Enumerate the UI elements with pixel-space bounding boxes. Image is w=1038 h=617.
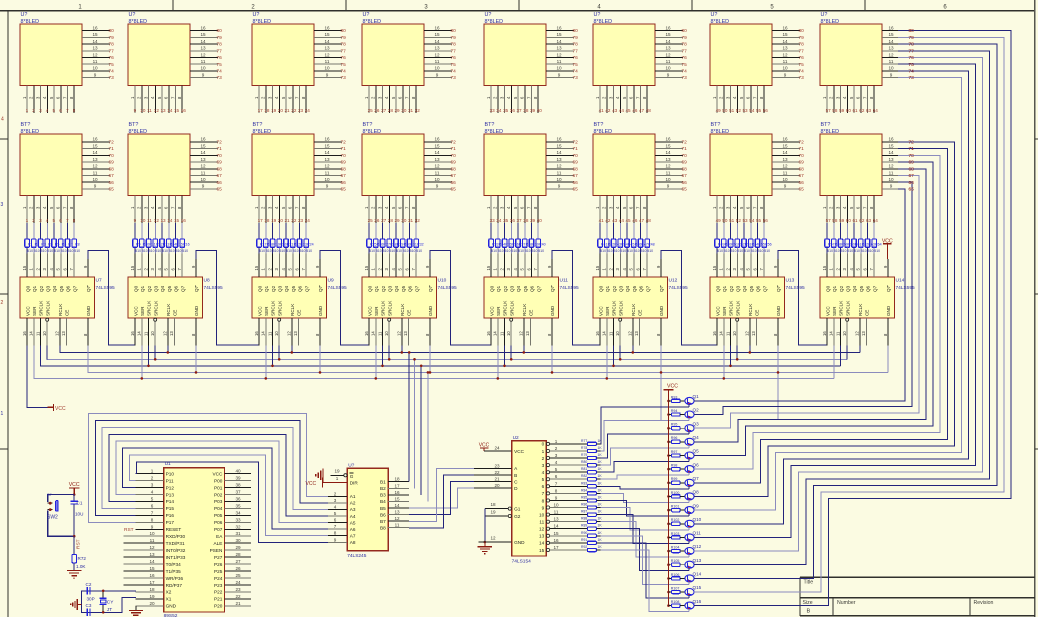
wire net 76 (row drive) module col8 to Q12 collector [694, 58, 983, 552]
svg-text:13: 13 [434, 46, 440, 51]
bottom pin 8 of module row1 col6, net 48 [642, 86, 651, 114]
svg-text:510: 510 [142, 249, 148, 253]
svg-text:R88: R88 [581, 517, 587, 521]
pin 14 of module row2 col1, net 70 [82, 150, 114, 159]
svg-text:SER: SER [496, 306, 501, 316]
svg-text:4: 4 [506, 206, 511, 209]
svg-text:510: 510 [286, 249, 292, 253]
wire U2 output 3 to Q4 base [601, 448, 689, 465]
pin 10 of module row2 col8, net 66 [882, 177, 914, 186]
svg-text:35: 35 [503, 218, 509, 223]
pin 9 of module row2 col5, net 65 [546, 184, 578, 193]
junction node VCC rail row 11 [667, 536, 670, 539]
junction node VCC rail row 10 [667, 523, 670, 526]
svg-text:59: 59 [839, 218, 845, 223]
resistor R41 (column driver col 6) [598, 223, 608, 253]
bottom pin 3 of module row1 col6, net 43 [608, 86, 617, 114]
svg-text:10: 10 [665, 66, 671, 71]
wire U8 pin drop to bus at y=372.4 [195, 345, 198, 373]
svg-text:76: 76 [341, 55, 347, 61]
pin 13 of module row1 col7, net 77 [772, 46, 804, 55]
svg-text:R99: R99 [671, 477, 678, 481]
pin 16 of module row2 col2, net 72 [190, 137, 222, 146]
U? 74LS245 pin 13 (B6) [388, 510, 409, 515]
svg-text:14: 14 [167, 218, 173, 223]
wire net 75 (row drive) module col8 to Q11 collector [694, 64, 976, 537]
svg-text:3: 3 [555, 453, 558, 458]
svg-text:68: 68 [109, 166, 115, 172]
svg-text:P02: P02 [214, 492, 223, 497]
svg-text:11: 11 [666, 59, 671, 64]
svg-text:21: 21 [494, 477, 500, 482]
svg-text:73: 73 [341, 75, 347, 81]
svg-text:16: 16 [434, 25, 440, 30]
svg-text:80: 80 [573, 28, 579, 34]
pin 10 of module row1 col8, net 74 [882, 66, 914, 75]
wire net 68 (row drive) module col8 to Q4 collector [694, 169, 926, 442]
svg-text:56: 56 [763, 218, 769, 223]
resistor R72 1.0K [72, 555, 86, 571]
svg-text:16: 16 [254, 331, 259, 336]
svg-text:10: 10 [539, 512, 545, 517]
pin 10 of module row1 col3, net 74 [314, 66, 346, 75]
svg-text:Q7: Q7 [536, 285, 541, 292]
svg-text:510: 510 [61, 249, 67, 253]
transistor Q7 (PNP) [685, 476, 699, 486]
svg-text:9: 9 [436, 184, 439, 189]
svg-text:1K: 1K [598, 460, 603, 464]
resistor R108 [669, 600, 686, 607]
svg-text:Q5: Q5 [859, 285, 864, 292]
U1 pin 5 (P14) [136, 496, 164, 501]
resistor R17 (column driver col 3) [257, 223, 267, 253]
svg-text:14: 14 [200, 39, 206, 44]
svg-text:Q5: Q5 [59, 285, 64, 292]
svg-text:Q7': Q7' [428, 285, 433, 292]
pin 11 of module row2 col2, net 67 [190, 170, 222, 179]
pin 12 of module row1 col2, net 76 [190, 52, 222, 61]
resistor R63 (column driver col 8) [865, 223, 875, 253]
svg-text:11: 11 [557, 170, 562, 175]
resistor R36 (column driver col 5) [509, 223, 519, 253]
svg-text:SRCLK: SRCLK [387, 300, 392, 316]
bottom pin 2 of module row1 col6, net 42 [602, 86, 611, 114]
U? 74LS245 pin 1 (DIR) tied to VCC [306, 476, 348, 488]
svg-text:17: 17 [149, 580, 155, 585]
wire bus SER [33, 377, 834, 379]
bottom pin 2 of module row2 col7, net 50 [719, 196, 728, 224]
svg-text:67: 67 [573, 173, 579, 179]
resistor R40 (column driver col 5) [536, 223, 546, 253]
svg-text:75: 75 [451, 62, 457, 68]
svg-text:RCLK: RCLK [858, 303, 863, 316]
U2 output 11 (pin 13) [546, 517, 587, 524]
svg-text:A8: A8 [350, 540, 356, 545]
bottom pin 6 of module row2 col2, net 14 [164, 196, 173, 224]
resistor R93 [669, 395, 686, 402]
capacitor C1 10U [71, 495, 84, 537]
junction node VCC rail row 8 [667, 495, 670, 498]
bottom pin 5 of module row2 col8, net 61 [849, 196, 858, 224]
svg-text:BT?: BT? [363, 122, 373, 128]
svg-text:Q3: Q3 [846, 285, 851, 292]
bottom pin 2 of module row2 col2, net 10 [137, 196, 146, 224]
pin 9 of module row2 col2, net 65 [190, 184, 222, 193]
svg-text:R78: R78 [581, 446, 587, 450]
svg-text:6: 6 [555, 474, 558, 479]
svg-text:Q4: Q4 [625, 285, 630, 292]
LED matrix module BT? 8*8LED (row 2, col 5) [484, 122, 546, 195]
transistor Q14 (PNP) [685, 572, 702, 582]
svg-text:510: 510 [68, 249, 74, 253]
resistor R31 (column driver col 4) [407, 223, 417, 253]
svg-text:Q2: Q2 [503, 285, 508, 292]
svg-text:71: 71 [451, 146, 457, 152]
svg-text:13: 13 [539, 534, 545, 539]
wire U14 pin drop to bus at y=378.4 [833, 345, 835, 378]
svg-text:73: 73 [799, 75, 805, 81]
bottom pin 1 of module row2 col8, net 57 [822, 196, 831, 224]
pin 10 of module row1 col4, net 74 [424, 66, 456, 75]
svg-text:1K: 1K [598, 510, 603, 514]
svg-text:10: 10 [782, 177, 788, 182]
svg-text:15: 15 [174, 108, 180, 113]
svg-text:1.0K: 1.0K [76, 564, 86, 569]
svg-text:R84: R84 [581, 488, 587, 492]
bottom pin 7 of module row2 col4, net 31 [404, 196, 413, 224]
svg-text:13: 13 [324, 157, 330, 162]
bottom pin 7 of module row1 col2, net 15 [170, 86, 179, 114]
svg-text:510: 510 [717, 249, 723, 253]
svg-text:3: 3 [542, 463, 545, 468]
wire U2 output 15 to Q16 base [601, 550, 689, 612]
svg-text:1K: 1K [598, 538, 603, 542]
VCC symbol (transistor rail) [664, 384, 679, 606]
resistor R59 (column driver col 8) [838, 223, 848, 253]
svg-text:9: 9 [134, 218, 137, 223]
svg-text:P17: P17 [166, 520, 175, 525]
svg-text:Q7': Q7' [194, 285, 199, 292]
svg-text:P25: P25 [214, 569, 223, 574]
svg-text:8: 8 [334, 531, 337, 536]
resistor R105 [669, 559, 686, 566]
bottom pin 5 of module row1 col5, net 37 [513, 86, 522, 114]
svg-text:1K: 1K [598, 545, 603, 549]
resistor R34 (column driver col 5) [496, 223, 506, 253]
svg-text:B6: B6 [380, 512, 386, 517]
U1 pin 12 (INT0/P32) [124, 545, 164, 550]
svg-text:16: 16 [665, 137, 671, 142]
wire P13 to 74LS245 A5 [116, 441, 328, 522]
wire P17 to 74LS245 A1 [89, 414, 328, 523]
svg-text:16: 16 [888, 137, 894, 142]
svg-text:33: 33 [235, 517, 241, 522]
svg-text:68: 68 [217, 166, 223, 172]
svg-text:24: 24 [305, 218, 311, 223]
bottom pin 2 of module row2 col8, net 58 [829, 196, 838, 224]
wire Q2 base drop [688, 418, 690, 421]
bottom pin 2 of module row1 col8, net 58 [829, 86, 838, 114]
pin 10 of module row1 col5, net 74 [546, 66, 578, 75]
svg-text:Q1: Q1 [374, 285, 379, 292]
U? 74LS245 pin 7 (A6) [328, 524, 347, 529]
svg-text:4: 4 [1, 117, 4, 123]
resistor R78 1K (base resistor) [581, 446, 602, 453]
LED matrix module U? 8*8LED (row 1, col 8) [820, 12, 882, 85]
svg-text:22: 22 [235, 594, 241, 599]
svg-text:74LS245: 74LS245 [347, 553, 367, 559]
U1 pin 20 (GND) [136, 601, 164, 606]
svg-text:Q0: Q0 [489, 285, 494, 292]
svg-text:VCC: VCC [489, 306, 494, 316]
pin 14 of module row1 col4, net 78 [424, 39, 456, 48]
U? 74LS245 pin 18 (B1) [388, 477, 409, 482]
svg-text:45: 45 [626, 108, 632, 113]
svg-text:31: 31 [408, 218, 414, 223]
svg-text:Q0: Q0 [257, 285, 262, 292]
crystal CY JT [100, 590, 115, 614]
wire net 67 (row drive) module col8 to Q3 collector [694, 176, 919, 429]
svg-text:R89: R89 [581, 524, 587, 528]
junction node VCC rail row 2 [667, 413, 670, 416]
U1 pin 34 (P05) [224, 510, 251, 515]
svg-text:SRCLK: SRCLK [509, 300, 514, 316]
svg-text:10: 10 [434, 66, 440, 71]
svg-text:U?: U? [363, 12, 370, 18]
svg-text:71: 71 [573, 146, 579, 152]
pin 12 of module row2 col6, net 68 [655, 164, 687, 173]
svg-text:10: 10 [274, 331, 279, 336]
svg-text:11: 11 [147, 218, 152, 223]
svg-text:T1/P35: T1/P35 [166, 569, 182, 574]
bottom pin 8 of module row2 col4, net 32 [411, 196, 420, 224]
svg-text:16: 16 [181, 108, 187, 113]
svg-text:28: 28 [388, 218, 394, 223]
svg-text:CE: CE [755, 310, 760, 316]
svg-text:11: 11 [783, 170, 788, 175]
resistor R42 (column driver col 6) [605, 223, 615, 253]
U? 74LS245 pin 15 (B4) [388, 496, 409, 501]
svg-text:38: 38 [523, 108, 529, 113]
svg-text:77: 77 [682, 48, 688, 54]
bottom pin 7 of module row2 col6, net 47 [635, 196, 644, 224]
svg-text:30: 30 [401, 218, 407, 223]
svg-text:U11: U11 [560, 278, 569, 284]
resistor R56 (column driver col 7) [762, 223, 772, 253]
transistor Q3 (PNP) [685, 421, 699, 431]
wire U8 pin drop to bus at y=378.4 [141, 345, 144, 379]
svg-text:6: 6 [59, 218, 62, 223]
svg-text:Q1: Q1 [832, 285, 837, 292]
wire bus RCLK [59, 351, 860, 353]
svg-text:Q7: Q7 [872, 285, 877, 292]
svg-text:42: 42 [605, 218, 611, 223]
U1 pin 30 (ALE) [224, 538, 251, 543]
LED matrix module U? 8*8LED (row 1, col 3) [252, 12, 314, 85]
svg-text:16: 16 [92, 137, 98, 142]
svg-text:Q0: Q0 [715, 285, 720, 292]
wire B2 to bus [413, 358, 416, 488]
svg-text:73: 73 [909, 75, 915, 81]
pin 11 of module row1 col6, net 75 [655, 59, 687, 68]
svg-text:55: 55 [756, 108, 762, 113]
svg-text:CE: CE [529, 310, 534, 316]
wire U13 pin drop to bus at y=359.3 [736, 345, 739, 360]
pin 11 of module row2 col3, net 67 [314, 170, 346, 179]
svg-text:B4: B4 [380, 499, 386, 504]
resistor R1 (column driver col 1) [25, 223, 33, 253]
svg-text:19: 19 [334, 469, 340, 474]
svg-text:37: 37 [235, 490, 241, 495]
svg-text:16: 16 [888, 25, 894, 30]
U2 pin 21 (input C) [474, 477, 512, 482]
bottom pin 2 of module row2 col5, net 34 [493, 196, 502, 224]
svg-text:74LS154: 74LS154 [512, 559, 532, 565]
wire U13 pin drop to bus at y=378.4 [723, 345, 726, 379]
U? 74LS245 pin 2 (A1) [328, 491, 347, 496]
svg-text:11: 11 [201, 59, 206, 64]
bottom pin 8 of module row1 col3, net 24 [301, 86, 310, 114]
wire RST junction to U1 RESET area (net label) [73, 536, 75, 554]
svg-text:1K: 1K [598, 496, 603, 500]
svg-text:R86: R86 [581, 503, 587, 507]
svg-text:79: 79 [799, 35, 805, 41]
svg-text:14: 14 [149, 559, 155, 564]
svg-text:74: 74 [573, 69, 579, 75]
svg-text:68: 68 [341, 166, 347, 172]
svg-text:58: 58 [832, 218, 838, 223]
wire U8 pin drop to bus at y=359.3 [154, 345, 157, 360]
resistor R48 (column driver col 6) [645, 223, 655, 253]
svg-text:P20: P20 [214, 604, 223, 609]
wire net 71 (row drive) module col8 to Q7 collector [694, 149, 947, 483]
wire B3 to bus [420, 365, 423, 495]
U1 pin 32 (P07) [224, 524, 251, 529]
bottom pin 8 of module row2 col8, net 64 [869, 196, 878, 224]
VCC symbol (reset circuit) [69, 482, 80, 495]
svg-text:70: 70 [217, 153, 223, 159]
bottom pin 1 of module row1 col6, net 41 [595, 86, 604, 114]
svg-text:1K: 1K [598, 517, 603, 521]
svg-text:Q2: Q2 [693, 408, 700, 413]
bottom pin 6 of module row1 col6, net 46 [629, 86, 638, 114]
bottom pin 7 of module row2 col2, net 15 [170, 196, 179, 224]
cascade wire U10 Q7' to U11 [430, 250, 491, 345]
U2 pin 18 (G1) [485, 502, 512, 510]
svg-text:Q2: Q2 [271, 285, 276, 292]
svg-text:SRCLK: SRCLK [618, 300, 623, 316]
bottom pin 1 of module row1 col2, net 9 [130, 86, 137, 114]
svg-text:3: 3 [334, 498, 337, 503]
pin 12 of module row2 col7, net 68 [772, 164, 804, 173]
svg-text:14: 14 [602, 331, 607, 336]
bottom pin 5 of module row1 col6, net 45 [622, 86, 631, 114]
svg-text:16: 16 [712, 331, 717, 336]
svg-text:16: 16 [22, 331, 27, 336]
wire Q7 base drop [688, 486, 690, 489]
svg-text:ALE: ALE [214, 541, 223, 546]
svg-text:14: 14 [92, 39, 98, 44]
resistor R22 (column driver col 3) [291, 223, 301, 253]
svg-text:Q4: Q4 [516, 285, 521, 292]
ground symbol (reset circuit) [67, 570, 82, 578]
svg-text:15: 15 [888, 143, 894, 148]
pin 14 of module row1 col6, net 78 [655, 39, 687, 48]
resistor R102 [669, 518, 686, 525]
svg-text:P21: P21 [214, 597, 223, 602]
pin 15 of module row1 col2, net 79 [190, 32, 222, 41]
svg-text:Q7': Q7' [776, 285, 781, 292]
svg-text:U?: U? [711, 12, 718, 18]
wire U2 output 9 to Q10 base [601, 508, 689, 530]
bottom pin 3 of module row2 col7, net 51 [725, 196, 734, 224]
svg-text:70: 70 [341, 153, 347, 159]
svg-text:53: 53 [743, 108, 749, 113]
svg-text:69: 69 [799, 160, 805, 166]
svg-text:CE: CE [173, 310, 178, 316]
svg-text:75: 75 [573, 62, 579, 68]
pin 16 of module row1 col7, net 80 [772, 25, 804, 34]
pin 13 of module row1 col4, net 77 [424, 46, 456, 55]
svg-text:6: 6 [151, 503, 154, 508]
svg-text:14: 14 [434, 150, 440, 155]
resistor R54 (column driver col 7) [749, 223, 759, 253]
svg-text:50: 50 [722, 108, 728, 113]
svg-text:R82: R82 [581, 474, 587, 478]
wire net 73 (row drive) module col8 to Q9 collector [694, 78, 961, 511]
svg-text:R83: R83 [581, 481, 587, 485]
U1 pin 25 (P24) [224, 573, 251, 578]
wire Q15 base drop [688, 595, 690, 598]
wire B4 to bus [427, 371, 430, 501]
svg-text:510: 510 [306, 249, 312, 253]
svg-text:4: 4 [151, 490, 154, 495]
svg-text:G2: G2 [514, 514, 521, 519]
svg-text:Q5: Q5 [523, 285, 528, 292]
svg-text:16: 16 [92, 25, 98, 30]
U2 pin 22 (input B) [474, 470, 512, 475]
svg-text:72: 72 [573, 140, 579, 146]
U? 74LS245 pin 11 (B8) [388, 523, 409, 528]
svg-text:Q1: Q1 [32, 285, 37, 292]
svg-text:72: 72 [451, 140, 457, 146]
wire U10 pin drop to bus at y=365.8 [381, 345, 384, 367]
resistor R97 [669, 450, 686, 457]
svg-text:76: 76 [682, 55, 688, 61]
bottom pin 8 of module row1 col8, net 64 [869, 86, 878, 114]
svg-text:R96: R96 [671, 436, 678, 440]
bottom pin 4 of module row2 col2, net 12 [150, 196, 159, 224]
svg-text:40: 40 [537, 108, 543, 113]
svg-text:23: 23 [235, 587, 241, 592]
svg-text:R102: R102 [671, 518, 680, 522]
LED matrix module U? 8*8LED (row 1, col 5) [484, 12, 546, 85]
svg-text:Q1: Q1 [496, 285, 501, 292]
svg-text:32: 32 [235, 524, 241, 529]
bottom pin 6 of module row2 col4, net 30 [398, 196, 407, 224]
svg-text:RCLK: RCLK [631, 303, 636, 316]
svg-text:15: 15 [254, 265, 259, 270]
svg-text:40: 40 [537, 218, 543, 223]
svg-text:4: 4 [506, 96, 511, 99]
svg-text:P12: P12 [166, 485, 175, 490]
wire Q9 base drop [688, 514, 690, 517]
pin 15 of module row2 col2, net 71 [190, 143, 222, 152]
svg-text:Q4: Q4 [693, 435, 700, 440]
pin 15 of module row1 col4, net 79 [424, 32, 456, 41]
pin 12 of module row1 col3, net 76 [314, 52, 346, 61]
svg-text:RCLK: RCLK [522, 303, 527, 316]
